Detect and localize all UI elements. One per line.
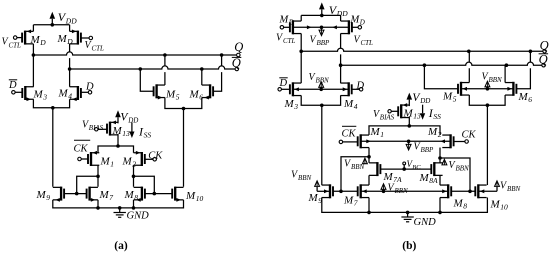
svg-text:M: M [453,197,464,209]
wire: MD sources to rail (b) [300,15,302,21]
transistor M7 (a) [87,187,98,202]
current arrow I_SS (a) [129,122,134,138]
transistor M5 (a) [154,84,165,99]
wire: M5 drain up to wire1, hop wire2 (b) [468,51,470,82]
input terminal CK (a) [145,158,157,162]
label V_BBP (MD pair) [310,35,331,48]
svg-text:BBN: BBN [298,174,312,182]
svg-text:4: 4 [354,102,358,111]
svg-text:BBN: BBN [351,163,365,171]
wire: M13 drain to M1/M2 source rail [117,134,119,146]
wire: M1/M2 source rail (b) [369,126,440,135]
svg-text:BC: BC [412,164,421,171]
svg-text:DD: DD [127,117,138,125]
junction: MD body tie center [320,26,324,30]
output terminal Q (b) [540,38,549,53]
wire: M1 drain branch to M9/M7 gates [77,176,98,193]
svg-text:2: 2 [438,130,442,139]
V_BBN tap at M7/M8 [381,184,386,192]
wire: M9/M7 gate tie (b) [333,190,358,192]
label M_D (b left) [279,14,294,26]
svg-text:M: M [112,125,123,137]
label Dbar (b) [279,78,288,89]
wire: VDD rail (b) [301,14,340,16]
label CK (b) [462,129,477,140]
label M_6 (b) [518,91,533,104]
input terminal V_BIAS (a) [95,128,107,131]
ground symbol (a) [114,208,150,222]
svg-text:M: M [165,88,176,100]
wire: M5/M6 tail (b) [469,95,505,105]
transistor M4 (a) [70,86,81,101]
input terminal CKbar (b) [339,140,358,144]
svg-text:D: D [8,80,17,91]
transistor MD left (b) [290,20,301,34]
label V_BC [407,159,422,171]
junction: wire1 / M6 gate [220,53,224,57]
svg-text:6: 6 [528,95,532,104]
svg-text:1: 1 [110,159,114,168]
junction: wire1 / M5 drain (b) [467,50,471,54]
junction: GND tap (b) [406,211,410,215]
label V_CTL (a left) [2,37,22,50]
wire: MD right source to rail [69,25,71,32]
transistor MD right (a) [70,29,81,44]
wire: tail down to M10 drain [183,109,185,187]
transistor M1 (a) [88,151,99,166]
svg-text:CTL: CTL [92,44,105,52]
output terminal Qbar (a) [232,56,242,71]
svg-text:M: M [189,88,200,100]
label V_BBN (M10) [500,180,521,193]
label M_8 [124,189,139,202]
junction: GND tap [118,206,122,210]
label M_4 [58,88,73,101]
label M_4 (b) [343,98,358,111]
label M_13 [112,125,131,138]
transistor M7 (b) [358,184,369,198]
wire: M8/M10 gate tie [145,193,172,195]
junction: M1/M2 body tie center [407,140,411,144]
input terminal V_CTL (a left) [13,36,22,40]
wire: M5 gate loop from wire2 (b) [424,65,458,89]
svg-text:D: D [288,18,294,26]
svg-text:BIAS: BIAS [380,114,395,122]
svg-text:D: D [39,38,46,47]
wire: M7 source to rail [97,200,99,208]
svg-text:M: M [36,189,47,201]
label M_9 (b) [308,192,323,205]
svg-text:BBN: BBN [395,187,409,195]
wire: M1 drain to M7 drain [97,165,99,187]
wire2: Qbar output rail (b) [341,62,542,65]
svg-text:10: 10 [196,194,204,203]
wire: branch left to M9/M7 gates (b) [341,157,369,192]
wire: M8/M10 gate tie (b) [451,190,475,192]
svg-text:M: M [419,172,430,184]
wire: M3/M4 tail (b) [301,96,340,106]
svg-text:3: 3 [42,93,47,102]
svg-text:SS: SS [144,130,152,139]
svg-text:(a): (a) [114,240,128,252]
svg-text:CK: CK [74,143,89,154]
label CKbar (a) [74,140,91,154]
output terminal Q (a) [234,40,243,57]
junction: M9/M7 gate node [75,192,79,196]
input terminal V_BIAS (b) [388,110,398,113]
junction: M5/M6 body tie center [486,87,490,91]
transistor M8 (a) [134,187,145,202]
wire1: Q output rail (b) [301,48,543,51]
svg-text:3: 3 [293,102,298,111]
ground symbol (b) [401,212,436,228]
junction: M3/M4 body tie center [319,88,323,92]
svg-text:D: D [85,82,94,93]
label M_1 (b) [370,126,385,139]
svg-text:M: M [100,155,111,167]
wire: tail down to M9 drain (b) [321,105,323,185]
svg-text:DD: DD [419,97,430,105]
label M_2 (b) [427,126,442,139]
label M_10 [185,190,204,203]
svg-text:M: M [383,171,394,183]
output terminal Qbar (b) [539,53,549,67]
label V_BBP (M1/M2) [414,141,435,154]
wire: M2 drain branch to M8/M10 gates [134,176,155,193]
junction: wire2 / MD-right drain [68,67,72,71]
body tie line M7/M8 with arrows (b) [361,189,449,193]
junction: wire1 / MD-left drain [32,53,36,57]
svg-text:M: M [427,126,438,138]
V_BBN tap at M1 drain node [362,158,367,164]
body tie line M1/M2 with arrows (b) [361,139,451,143]
transistor M7A (b) [369,162,380,176]
wire: GND rail (a) [53,200,184,208]
label M_7A [383,171,403,184]
svg-text:Q: Q [232,56,241,70]
svg-text:BBN: BBN [316,76,330,84]
svg-text:CK: CK [148,150,163,161]
svg-text:BBP: BBP [317,39,331,47]
label M_10 (b) [490,198,509,211]
V_BBN tap at M2 drain node [442,159,447,165]
label M_D (left) [30,34,47,47]
transistor M6 (b) [505,82,516,96]
wire: M7 source to rail (b) [368,198,370,213]
svg-text:7A: 7A [393,175,402,184]
svg-text:8: 8 [134,193,138,202]
wire: M6 gate loop to wire1 (hop wire2) [213,55,222,91]
transistor M2 (a) [134,151,145,166]
input terminal CKbar (a) [78,157,88,161]
transistor M9 (a) [53,187,64,202]
label M_D (right) [57,33,74,46]
label V_BBN (M3/M4) [309,72,330,85]
V_BBN tap at M3/M4 [319,82,324,90]
junction: M3/M4 tail node (b) [320,104,324,108]
label V_CTL (a right) [85,40,105,53]
junction: M5/M6 tail node (b) [486,103,490,107]
junction: M1 drain node [96,175,100,179]
wire: M5 drain up to wire1 (hop wire2) [164,55,166,85]
label V_BBN (M2 drain) [449,160,470,173]
label M_5 [165,88,180,101]
V_BBP tap at MD pair [319,27,324,35]
svg-text:GND: GND [127,210,150,221]
label M_6 [189,88,204,101]
svg-text:BBP: BBP [421,146,435,154]
svg-text:M: M [284,98,295,110]
svg-text:8A: 8A [429,176,438,185]
svg-text:10: 10 [500,202,508,211]
wire: branch right to M8/M10 gates (b) [440,158,470,191]
wire: GND rail (b) [322,198,488,213]
VDD supply arrow at M13 (b) [407,93,413,107]
svg-text:M: M [518,91,529,103]
wire: M6 drain up to wire2 (b) [504,65,506,82]
wire: M8A source down to M8 drain (b) [439,175,441,185]
transistor M2 (b) [442,134,453,148]
label V_BBN (M1 drain) [344,158,365,171]
wire: M1/M2 source rail (a) [98,146,134,153]
transistor M1 (b) [358,134,369,148]
svg-text:Q: Q [540,38,549,52]
svg-text:4: 4 [68,92,72,101]
svg-text:M: M [58,88,69,100]
junction: VDD stem / rail (b) [320,14,324,18]
wire: M3/M4 tail [33,99,69,108]
wire: tail down to M9 drain [52,108,54,187]
junction: wire1 / M5 drain [163,53,167,57]
svg-text:BBN: BBN [456,164,470,172]
svg-text:CK: CK [342,128,357,139]
wire: M2 drain down to node (b) [439,148,441,163]
wire: M13 drain to M1/M2 source rail (b) [408,117,410,126]
svg-text:M: M [403,108,414,120]
wire: M8 source to rail (b) [439,198,441,213]
label V_CTL (b right) [354,34,374,47]
label M_8A [419,172,439,185]
label V_BBN (M9) [291,169,312,182]
wire1: Q output rail (a) [33,52,236,55]
svg-text:M: M [343,194,354,206]
body lead M10 with V_BBN tap [478,181,499,193]
label D (b) [356,81,365,92]
caption (a) [114,240,128,252]
svg-text:5: 5 [453,94,457,103]
svg-text:9: 9 [46,193,50,202]
svg-text:M: M [370,126,381,138]
svg-text:BBN: BBN [489,76,503,84]
wire: M9/M7 gate tie [64,193,87,195]
junction: M8/M10 gate node (b) [468,190,472,194]
svg-text:7: 7 [109,193,113,202]
label V_BIAS (b) [373,109,395,122]
label M_7 [99,189,114,202]
transistor M13 (a) [107,120,118,135]
VDD supply arrow (b) [319,2,325,15]
transistor M8A (b) [431,162,442,176]
svg-text:1: 1 [380,130,384,139]
label Dbar (a) [8,80,17,91]
input terminal Dbar (b) [278,88,290,92]
junction: wire2 / M5 gate [139,67,143,71]
wire: M7A source down to M7 drain (b) [368,175,370,185]
junction: M2 drain node [132,175,136,179]
svg-text:M: M [308,192,319,204]
svg-text:Q: Q [234,40,243,54]
svg-text:13: 13 [122,129,130,138]
V_BBP tap at M1/M2 [406,141,411,150]
wire: MD right drain down, hop over wire1, to wire2 [69,44,71,65]
transistor M3 (a) [22,86,33,101]
svg-text:M: M [30,34,41,46]
svg-text:CK: CK [462,129,477,140]
label V_BBN (M7/M8) [388,182,409,195]
svg-text:M: M [124,189,135,201]
label M_3 (b) [284,98,299,111]
transistor M6 (a) [202,84,213,99]
junction: wire1 / M6 gate (b) [529,50,533,54]
svg-text:CTL: CTL [9,41,22,49]
svg-text:BBN: BBN [507,185,521,193]
label I_SS (b) [428,106,441,121]
junction: wire2 / M6 drain [200,67,204,71]
wire: wire2 down to M4 drain [69,69,71,87]
body tie line M3/M4 with arrows (b) [293,87,349,91]
junction: source rail center (b) [408,124,412,128]
transistor MD left (a) [22,29,33,44]
wire2: Qbar output rail (a) [70,66,235,69]
junction: M7 source / rail (b) [367,211,371,215]
input terminal D (b) [352,88,363,92]
svg-text:(b): (b) [402,240,416,252]
svg-text:M: M [490,198,501,210]
wire: MD left source to rail [32,25,34,32]
junction: M3/M4 tail node [51,106,55,110]
svg-text:8: 8 [463,201,467,210]
label M_8 (b) [453,197,468,210]
label M_7 (b) [343,194,358,207]
svg-text:CTL: CTL [361,39,374,47]
wire: M6 drain up to wire2 [201,69,203,85]
svg-text:D: D [356,81,365,92]
svg-text:DD: DD [336,9,348,18]
V_BBN tap at M5/M6 [485,81,490,89]
svg-text:GND: GND [414,217,437,228]
transistor M4 (b) [340,82,351,96]
terminal V_BC [403,162,406,169]
input terminal Dbar (a) [12,91,23,95]
svg-text:13: 13 [413,112,421,121]
junction: wire2 / M6 drain (b) [505,63,509,67]
wire: wire1 down to M3 drain [32,55,34,87]
wire: M1 drain down to node (b) [368,148,370,163]
wire: MD left drain to wire1 [32,44,34,55]
wire: tail down to M10 drain (b) [486,105,488,185]
wire: MD right drain hop wire1 to wire2 (b) [340,34,342,66]
svg-text:M: M [185,190,196,202]
junction: M8 source / rail [132,206,136,210]
svg-text:SS: SS [433,112,441,121]
svg-text:M: M [122,155,133,167]
transistor M9 (b) [322,184,333,198]
svg-text:Q: Q [539,53,548,67]
body tie line M5/M6 with arrows (b) [461,87,513,91]
wire: M8 source to rail [133,200,135,208]
label CKbar (b) [342,126,357,139]
transistor MD right (b) [341,20,352,34]
label V_BIAS (a) [82,119,104,132]
wire: VDD rail (a) [33,24,69,26]
transistor M3 (b) [290,82,301,96]
caption (b) [402,240,416,252]
body lead M9 with V_BBN tap [315,181,330,193]
junction: VDD stem / rail (a) [51,23,55,27]
transistor M8 (b) [440,184,451,198]
svg-text:5: 5 [176,92,180,101]
label M_D (b right) [350,14,365,26]
label V_DD (a top) [58,10,77,25]
label M_9 [36,189,51,202]
label D (a) [85,82,94,93]
label V_DD (b top) [329,3,348,18]
label M_1 [100,155,115,168]
wire: wire2 down to M4 drain (b) [340,65,342,83]
svg-text:DD: DD [65,16,77,25]
input terminal V_CTL (b right) [352,26,362,30]
wire: M6 gate loop to wire1, hop wire2 (b) [516,51,530,89]
transistor M5 (b) [458,82,469,96]
wire: M5 gate loop from wire2 [140,69,153,91]
junction: M8 source / rail (b) [438,211,442,215]
input terminal D (a) [81,91,92,95]
svg-text:M: M [99,189,110,201]
svg-text:M: M [442,90,453,102]
svg-text:7: 7 [354,198,358,207]
transistor M10 (a) [172,187,183,202]
svg-text:D: D [279,78,288,89]
wire: M2 drain to M8 drain [133,165,135,187]
label M_2 [122,155,137,168]
junction: source rail center [116,144,120,148]
junction: M1 drain node (b) [367,155,371,159]
label M_5 (b) [442,90,457,103]
svg-text:M: M [343,98,354,110]
junction: wire2 / MD-right drain (b) [339,63,343,67]
label V_CTL (b left) [276,32,296,45]
junction: M7/M8 body tie / V_BBN tap [382,190,386,194]
junction: M5/M6 tail node [182,107,186,111]
wire: MD left drain to wire1 (b) [300,34,302,52]
svg-text:CTL: CTL [283,37,296,45]
junction: V_BC node [402,167,406,171]
body tie line MD pair with arrows (b) [293,25,349,29]
junction: wire1 / MD-left drain (b) [299,50,303,54]
svg-text:M: M [57,33,68,45]
VDD supply arrow at M13 (a) [115,110,121,123]
svg-text:M: M [33,89,44,101]
label CK (a) [148,150,163,161]
junction: M7 source / rail [96,206,100,210]
input terminal CK (b) [454,140,469,144]
wire: wire1 down to M3 drain (b) [300,51,302,83]
label V_BBN (M5/M6) [482,71,503,84]
input terminal V_CTL (a right) [81,36,93,40]
input terminal V_CTL (b left) [280,26,290,30]
label M_3 [33,89,48,102]
label M_13 (b) [403,108,422,121]
